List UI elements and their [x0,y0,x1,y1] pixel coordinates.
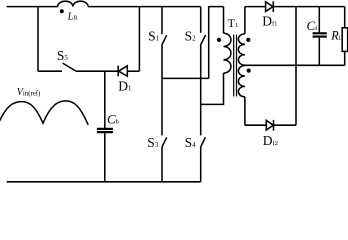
wire top rail left [7,6,58,8]
LB polarity dot [60,9,64,13]
switch S1 upper contact [161,7,163,34]
secondary lower polarity dot [247,69,251,73]
wire cathode riser [295,7,297,126]
resistor RL [344,7,346,28]
wire S4 lower contact [200,147,202,182]
diode D1 [117,66,119,77]
wire S5 branch riser [37,7,39,72]
svg-text:T1: T1 [228,16,239,30]
wire secondary bottom lead [244,97,246,125]
wire Df2 input [245,124,266,126]
switch S3 blade [162,137,167,147]
wire primary riser [209,7,224,79]
wire output bottom rail / center tap [245,64,345,66]
inductor LB [58,1,88,6]
svg-text:S3: S3 [147,135,159,150]
svg-text:Cb: Cb [107,111,119,126]
svg-text:S2: S2 [185,28,197,43]
wire D1 riser [138,7,140,72]
svg-text:Cf: Cf [307,18,319,33]
wire Df1 to output + [273,6,344,8]
capacitor Cb [104,71,106,128]
transformer T1 secondary lower winding [238,66,245,97]
transformer T1 core [233,35,235,97]
svg-text:Df1: Df1 [262,13,277,28]
switch S5 [38,70,62,72]
svg-text:LB: LB [67,11,78,22]
wire bridge midpoint A to primary riser [162,77,209,79]
svg-text:S5: S5 [57,48,69,63]
source waveform Vin(ref) [0,101,88,126]
wire secondary top to Df1 [245,6,266,8]
wire S1 to S3 leg [161,45,163,136]
svg-text:Df2: Df2 [263,133,278,148]
switch S1 blade [162,35,167,44]
wire bottom rail [7,181,201,183]
transformer T1 primary winding [223,7,225,34]
primary polarity dot [217,38,221,42]
wire top rail right of LB [88,6,201,8]
switch S2 blade [201,35,206,45]
switch S2 upper contact [200,7,202,33]
wire Df2 to riser [274,124,297,126]
diode Df1 [266,2,273,12]
diode Df2 [266,120,273,130]
wire S3 lower contact [161,147,163,182]
capacitor Cf [318,7,320,33]
secondary top polarity dot [246,38,250,42]
svg-text:S1: S1 [148,29,159,44]
svg-text:S4: S4 [185,135,197,150]
transformer T1 secondary upper winding [244,7,246,34]
svg-text:D1: D1 [118,78,131,93]
switch S4 blade [201,137,206,147]
wire S2 to S4 leg [200,45,202,136]
svg-text:Vin(ref): Vin(ref) [17,87,40,98]
wire primary bottom [201,73,224,104]
wire D1 to riser [127,70,139,72]
wire S5 to D1 [76,70,119,72]
svg-text:RL: RL [330,28,342,42]
